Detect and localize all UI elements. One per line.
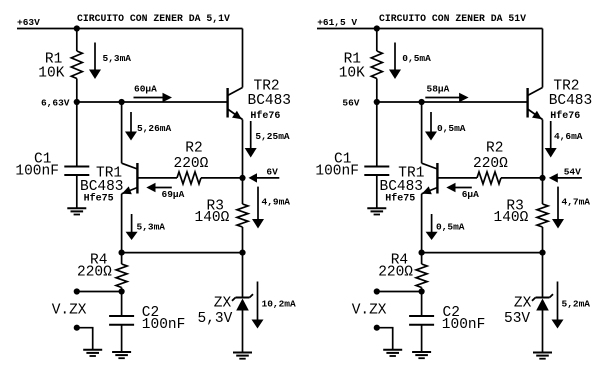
current arrow 5,3mA [126, 214, 138, 240]
resistor R1 [371, 51, 382, 79]
svg-text:54V: 54V [564, 167, 581, 178]
label TR1 [398, 166, 424, 182]
label R3 [207, 198, 224, 214]
value label 4,6mA [554, 131, 583, 142]
wire TR1 base [137, 177, 177, 179]
wire [242, 311, 244, 353]
svg-text:CIRCUITO CON ZENER DA 51V: CIRCUITO CON ZENER DA 51V [379, 13, 526, 24]
wire bottom rail [122, 252, 243, 254]
wire TR1 emitter [421, 194, 423, 253]
wire base rail [377, 101, 528, 103]
wire [421, 292, 423, 316]
node ZX top junction [539, 250, 545, 256]
svg-text:56V: 56V [342, 98, 359, 109]
svg-text:100nF: 100nF [15, 164, 59, 180]
svg-text:Hfe75: Hfe75 [84, 193, 114, 205]
current arrow 58µA [425, 93, 468, 102]
svg-text:V.ZX: V.ZX [352, 303, 387, 319]
node TR1 collector junction [119, 99, 125, 105]
svg-text:BC483: BC483 [248, 93, 292, 109]
value BC483 [248, 93, 292, 109]
svg-text:0,5mA: 0,5mA [436, 222, 465, 233]
svg-text:140Ω: 140Ω [195, 210, 230, 226]
wire [377, 328, 393, 350]
svg-text:TR2: TR2 [553, 78, 579, 94]
svg-text:100nF: 100nF [442, 317, 486, 333]
label R4 [90, 253, 107, 269]
svg-text:Hfe76: Hfe76 [550, 110, 580, 122]
wire TR2 collector [542, 29, 544, 88]
svg-text:58µA: 58µA [427, 83, 450, 94]
svg-text:5,26mA: 5,26mA [137, 123, 172, 134]
node 54V junction [539, 175, 545, 181]
node TR1 collector junction [419, 99, 425, 105]
value 100nF [142, 317, 186, 333]
current arrow 5,26mA [125, 112, 137, 141]
svg-text:+63V: +63V [17, 17, 40, 28]
label C2 [443, 305, 460, 321]
node Vout junction [419, 288, 425, 294]
svg-text:CIRCUITO CON ZENER DA 5,1V: CIRCUITO CON ZENER DA 5,1V [77, 13, 230, 24]
ground [533, 353, 552, 359]
wire V.ZX tap [377, 291, 422, 293]
svg-text:ZX: ZX [514, 296, 532, 312]
current arrow 0,5mA [426, 214, 438, 240]
voltage arrow 54V [549, 173, 582, 182]
wire V.ZX tap [77, 291, 122, 293]
svg-text:6µA: 6µA [462, 189, 479, 200]
node label 6,63V [41, 98, 70, 109]
svg-text:6,63V: 6,63V [41, 98, 70, 109]
wire [376, 102, 378, 166]
wire [76, 29, 78, 52]
zener diode ZX [232, 294, 253, 310]
svg-text:5,3mA: 5,3mA [103, 53, 132, 64]
value label 0,5mA [437, 123, 466, 134]
svg-text:Hfe75: Hfe75 [385, 193, 415, 205]
node label 54V [564, 167, 581, 178]
wire [121, 292, 123, 316]
wire [242, 178, 244, 204]
label V.ZX [52, 303, 87, 319]
node 56V junction [374, 99, 380, 105]
node Vcc junction [374, 25, 380, 31]
label ZX [514, 296, 532, 312]
current arrow 5,2mA [552, 282, 564, 329]
node label 56V [342, 98, 359, 109]
resistor R2 [477, 172, 501, 184]
terminal V.ZX- [74, 325, 80, 331]
wire [501, 177, 543, 179]
value 5,3V [198, 311, 233, 327]
node Vout junction [119, 288, 125, 294]
value 100nF [15, 164, 59, 180]
value 220ohm [174, 156, 209, 172]
wire Vcc rail [317, 28, 543, 30]
resistor R4 [416, 264, 427, 288]
value 10K [339, 65, 365, 81]
value label 5,3mA [137, 222, 166, 233]
value label 5,3mA [103, 53, 132, 64]
svg-text:60µA: 60µA [134, 83, 157, 94]
svg-text:0,5mA: 0,5mA [402, 53, 431, 64]
label C1 [34, 152, 51, 168]
svg-text:5,25mA: 5,25mA [255, 131, 290, 142]
svg-text:6V: 6V [266, 167, 278, 178]
value 220ohm [378, 265, 413, 281]
value label 69µA [162, 189, 185, 200]
svg-text:140Ω: 140Ω [494, 210, 529, 226]
voltage arrow 6V [249, 173, 280, 182]
value label 5,2mA [562, 299, 591, 310]
value label 6µA [462, 189, 479, 200]
label Hfe76 [250, 110, 280, 122]
svg-text:4,6mA: 4,6mA [554, 131, 583, 142]
value 100nF [442, 317, 486, 333]
wire [242, 227, 244, 253]
ground [112, 352, 131, 358]
ground [233, 353, 252, 359]
wire TR1 collector [121, 102, 123, 163]
ground [383, 350, 402, 356]
resistor R3 [537, 204, 548, 227]
svg-text:Hfe76: Hfe76 [250, 110, 280, 122]
value label 4,7mA [562, 197, 591, 208]
transistor TR2 [228, 88, 243, 120]
wire [121, 253, 123, 264]
svg-text:10K: 10K [339, 65, 365, 81]
wire TR2 emitter [542, 120, 544, 178]
svg-text:100nF: 100nF [142, 317, 186, 333]
terminal V.ZX+ [374, 288, 380, 294]
wire [121, 288, 123, 292]
label V.ZX [352, 303, 387, 319]
svg-text:0,5mA: 0,5mA [437, 123, 466, 134]
transistor TR2 [528, 88, 543, 120]
value BC483 [380, 179, 424, 195]
wire [376, 175, 378, 208]
wire [376, 29, 378, 52]
svg-text:69µA: 69µA [162, 189, 185, 200]
resistor R2 [177, 172, 201, 184]
wire TR2 emitter [242, 120, 244, 178]
value BC483 [80, 179, 124, 195]
wire [542, 311, 544, 353]
svg-text:R2: R2 [486, 140, 503, 156]
node Vcc junction [74, 25, 80, 31]
resistor R3 [237, 204, 248, 227]
capacitor C2 [409, 316, 434, 325]
wire TR1 base [437, 177, 477, 179]
label R4 [391, 253, 408, 269]
wire [542, 253, 544, 298]
terminal V.ZX+ [74, 288, 80, 294]
value label 0,5mA [402, 53, 431, 64]
resistor R1 [71, 51, 82, 79]
svg-text:53V: 53V [504, 311, 530, 327]
transistor TR1 [122, 163, 138, 194]
svg-text:V.ZX: V.ZX [52, 303, 87, 319]
ground [367, 208, 386, 214]
svg-text:5,3mA: 5,3mA [137, 222, 166, 233]
wire [376, 79, 378, 103]
wire [421, 288, 423, 292]
wire bottom rail [422, 252, 543, 254]
terminal V.ZX- [374, 325, 380, 331]
current arrow 69µA [146, 183, 172, 192]
current arrow 4,7mA [552, 187, 564, 229]
label R1 [344, 52, 361, 68]
svg-text:ZX: ZX [214, 296, 232, 312]
wire [201, 177, 243, 179]
wire [242, 253, 244, 298]
current arrow 5,3mA [89, 43, 101, 80]
capacitor C1 [364, 167, 389, 176]
wire TR1 collector [421, 102, 423, 163]
wire TR1 emitter [121, 194, 123, 253]
transistor TR1 [422, 163, 438, 194]
label TR2 [553, 78, 579, 94]
current arrow 5,25mA [245, 121, 257, 158]
zener diode ZX [532, 294, 553, 310]
wire [76, 102, 78, 166]
value label 5,26mA [137, 123, 172, 134]
node ZX top junction [239, 250, 245, 256]
capacitor C2 [109, 316, 134, 325]
title text [379, 13, 526, 24]
label R1 [45, 52, 62, 68]
wire TR2 collector [242, 29, 244, 88]
wire [76, 175, 78, 208]
node 6,63V junction [74, 99, 80, 105]
value BC483 [549, 93, 593, 109]
wire [77, 328, 93, 350]
net +61,5 V supply label [317, 17, 357, 28]
net +63V supply label [17, 17, 40, 28]
ground [412, 352, 431, 358]
value 220ohm [473, 156, 508, 172]
current arrow 60µA [134, 93, 173, 102]
value 140ohm [494, 210, 529, 226]
svg-text:5,3V: 5,3V [198, 311, 233, 327]
svg-text:4,9mA: 4,9mA [262, 197, 291, 208]
value label 60µA [134, 83, 157, 94]
value label 5,25mA [255, 131, 290, 142]
node label 6V [266, 167, 278, 178]
svg-text:+61,5 V: +61,5 V [317, 17, 357, 28]
wire [542, 227, 544, 253]
value label 58µA [427, 83, 450, 94]
svg-text:220Ω: 220Ω [174, 156, 209, 172]
svg-text:220Ω: 220Ω [378, 265, 413, 281]
svg-text:5,2mA: 5,2mA [562, 299, 591, 310]
label Hfe75 [385, 193, 415, 205]
wire base rail [77, 101, 228, 103]
label C1 [334, 152, 351, 168]
value label 4,9mA [262, 197, 291, 208]
title text [77, 13, 230, 24]
wire [121, 325, 123, 352]
current arrow 0,5mA [425, 112, 437, 141]
svg-text:BC483: BC483 [549, 93, 593, 109]
svg-text:220Ω: 220Ω [473, 156, 508, 172]
label R2 [185, 140, 202, 156]
label Hfe75 [84, 193, 114, 205]
label ZX [214, 296, 232, 312]
wire [421, 325, 423, 352]
label R2 [486, 140, 503, 156]
value 220ohm [77, 265, 112, 281]
value label 0,5mA [436, 222, 465, 233]
wire [76, 79, 78, 103]
current arrow 10,2mA [252, 282, 264, 329]
current arrow 4,6mA [545, 121, 557, 158]
ground [67, 208, 86, 214]
resistor R4 [116, 264, 127, 288]
current arrow 6µA [446, 183, 472, 192]
value label 10,2mA [262, 299, 297, 310]
label R3 [506, 198, 523, 214]
svg-text:220Ω: 220Ω [77, 265, 112, 281]
svg-text:R2: R2 [185, 140, 202, 156]
label Hfe76 [550, 110, 580, 122]
svg-text:100nF: 100nF [315, 164, 359, 180]
wire [542, 178, 544, 204]
current arrow 4,9mA [252, 187, 264, 229]
node R4 top junction [119, 250, 125, 256]
node R4 top junction [419, 250, 425, 256]
label TR1 [96, 166, 122, 182]
node 6V junction [239, 175, 245, 181]
value 10K [38, 65, 64, 81]
svg-text:10,2mA: 10,2mA [262, 299, 297, 310]
svg-text:4,7mA: 4,7mA [562, 197, 591, 208]
label TR2 [254, 78, 280, 94]
value 100nF [315, 164, 359, 180]
svg-text:10K: 10K [38, 65, 64, 81]
ground [83, 350, 102, 356]
label C2 [142, 305, 159, 321]
wire Vcc rail [17, 28, 243, 30]
value 53V [504, 311, 530, 327]
wire [421, 253, 423, 264]
value 140ohm [195, 210, 230, 226]
capacitor C1 [64, 167, 89, 176]
current arrow 0,5mA [389, 43, 401, 80]
svg-text:TR2: TR2 [254, 78, 280, 94]
